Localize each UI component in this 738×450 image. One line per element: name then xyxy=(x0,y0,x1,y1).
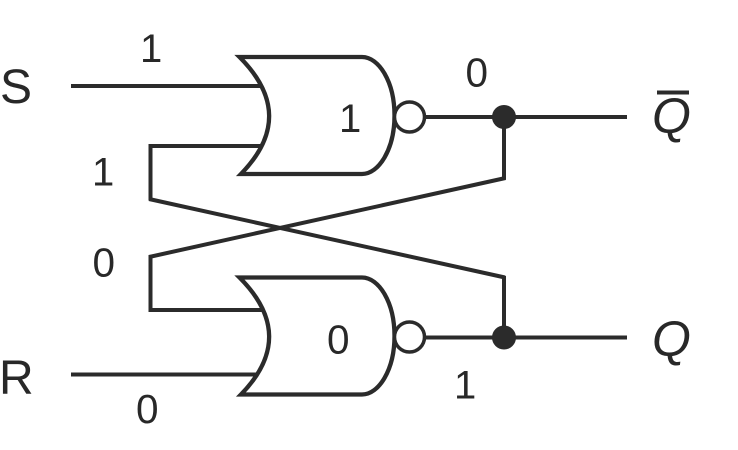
wire top gate feedback input horizontal xyxy=(149,144,264,148)
wire top gate feedback vertical xyxy=(149,144,153,200)
wire S input xyxy=(71,84,262,88)
node Qbar label xyxy=(652,88,691,144)
svg-text:1: 1 xyxy=(339,97,361,141)
svg-text:1: 1 xyxy=(454,364,476,408)
U1 output bubble xyxy=(395,102,425,132)
svg-text:Q: Q xyxy=(652,88,691,144)
junction node Q xyxy=(492,326,516,350)
wire diagonal Qbar to bottom-left xyxy=(149,178,506,257)
wire vertical down to Q dot xyxy=(502,276,506,338)
U2 output bubble xyxy=(395,322,425,352)
wire Qbar output xyxy=(425,115,627,119)
svg-text:0: 0 xyxy=(136,386,159,432)
svg-text:R: R xyxy=(0,352,34,405)
NOR gate U1 top xyxy=(240,57,395,174)
svg-text:Q: Q xyxy=(652,311,691,367)
svg-text:1: 1 xyxy=(92,151,114,195)
svg-text:S: S xyxy=(0,61,32,114)
svg-text:0: 0 xyxy=(93,240,116,286)
wire bottom gate feedback input horizontal xyxy=(149,308,264,312)
wire vertical below Qbar dot xyxy=(502,117,506,180)
wire diagonal Q to top-left xyxy=(149,199,505,278)
wire R input xyxy=(71,373,258,377)
svg-text:0: 0 xyxy=(327,317,350,363)
wire Q output xyxy=(425,336,627,340)
svg-text:0: 0 xyxy=(466,50,489,96)
junction node Qbar xyxy=(492,105,516,129)
svg-text:1: 1 xyxy=(140,27,162,71)
wire bottom gate feedback vertical xyxy=(149,255,153,312)
NOR gate U2 bottom xyxy=(240,278,395,395)
